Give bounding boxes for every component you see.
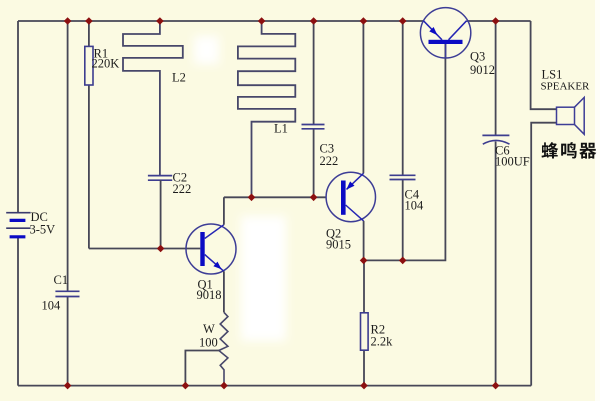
white artifact patch right of Q1 <box>241 216 286 341</box>
buzzer char 器 <box>579 143 596 159</box>
battery B1 DC 3-5V <box>6 210 55 237</box>
junction dots on ground rail <box>64 382 500 390</box>
capacitor C3 222 <box>302 21 339 197</box>
buzzer char 鸣 <box>561 142 576 158</box>
svg-text:L2: L2 <box>172 71 186 85</box>
capacitor C2 222 <box>148 171 191 249</box>
capacitor C4 104 <box>390 21 425 260</box>
svg-text:100: 100 <box>199 336 218 350</box>
transistor Q1 9018 <box>186 197 236 312</box>
transistor Q3 9012 <box>420 8 495 77</box>
buzzer label (CJK) <box>542 142 597 158</box>
svg-text:104: 104 <box>405 199 425 213</box>
svg-text:SPEAKER: SPEAKER <box>541 81 591 93</box>
svg-text:3-5V: 3-5V <box>30 223 56 237</box>
wire: top rail corner down to speaker top <box>531 21 557 109</box>
inductor L1 <box>238 21 295 197</box>
wire: speaker bottom to ground rail <box>531 123 556 386</box>
svg-text:222: 222 <box>320 154 339 168</box>
wire: Q1 collector to Q2 base <box>224 196 326 198</box>
svg-text:9012: 9012 <box>470 63 495 77</box>
wire: top supply rail <box>18 20 531 22</box>
transistor Q2 9015 <box>326 21 375 260</box>
speaker LS1 <box>541 68 591 135</box>
svg-text:Q3: Q3 <box>470 50 485 64</box>
white strip at right edge <box>595 0 600 401</box>
inductor L2 <box>123 21 186 175</box>
potentiometer W 100 <box>185 312 228 385</box>
capacitor C1 104 <box>42 273 80 313</box>
svg-text:222: 222 <box>173 182 192 196</box>
svg-text:104: 104 <box>42 299 62 313</box>
svg-text:W: W <box>203 322 215 336</box>
buzzer char 蜂 <box>542 142 559 158</box>
wire: Q2 collector to Q3 base <box>364 43 446 260</box>
wire: left battery vertical <box>17 21 19 386</box>
junction dots on top rail <box>64 17 500 25</box>
svg-text:100UF: 100UF <box>495 155 530 169</box>
junction dots mid circuit <box>157 194 407 265</box>
wire: Q1 base wire <box>89 248 200 250</box>
svg-text:9018: 9018 <box>197 288 222 302</box>
svg-text:2.2k: 2.2k <box>371 335 394 349</box>
svg-text:C1: C1 <box>54 273 69 287</box>
resistor R2 2.2k <box>361 260 394 385</box>
svg-text:LS1: LS1 <box>542 68 563 82</box>
wire: bottom ground rail <box>18 385 531 387</box>
svg-text:L1: L1 <box>274 122 288 136</box>
resistor R1 220K <box>85 21 119 249</box>
svg-text:9015: 9015 <box>326 238 351 252</box>
white artifact patch between L2 and L1 <box>194 36 219 64</box>
svg-text:220K: 220K <box>92 57 120 71</box>
capacitor C6 100UF <box>482 21 529 386</box>
wire: C1 branch vertical <box>67 21 69 386</box>
